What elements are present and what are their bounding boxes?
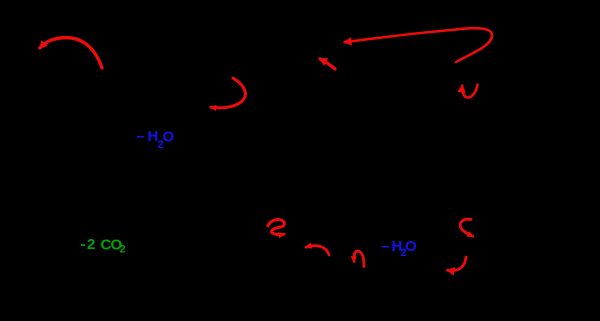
svg-text:O: O xyxy=(405,238,417,255)
svg-text:2: 2 xyxy=(87,236,95,253)
svg-text:–: – xyxy=(137,128,145,145)
svg-text:–: – xyxy=(382,238,390,255)
svg-text:O: O xyxy=(163,129,175,146)
svg-text:2: 2 xyxy=(120,244,126,256)
svg-text:-: - xyxy=(81,236,86,253)
